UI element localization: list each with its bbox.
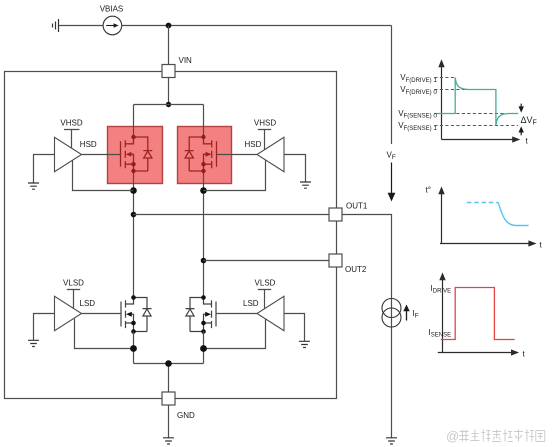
- wire (OUT1 to load line): [342, 215, 392, 438]
- wire: [59, 25, 104, 27]
- current source VBIAS: [103, 16, 122, 35]
- wire (phase2 lower vertical): [203, 332, 205, 364]
- MOSFET Q3 (low side left): [121, 298, 152, 332]
- power rail VHSD left: [64, 130, 79, 149]
- node junction source bus left: [130, 345, 137, 352]
- wire to OUT2: [204, 260, 330, 262]
- svg-text:VF(SENSE) 0: VF(SENSE) 0: [398, 109, 437, 120]
- node junction above VIN: [166, 23, 172, 29]
- graph2 x-axis: [440, 243, 529, 245]
- power rail VLSD right: [258, 290, 271, 309]
- node junction OUT2 tap: [201, 258, 207, 264]
- svg-text:HSD: HSD: [245, 140, 262, 149]
- wire (driver output to gate): [216, 313, 257, 315]
- graph1 x-axis: [442, 139, 513, 141]
- wire (phase1 lower vertical): [133, 332, 135, 364]
- ground: [28, 340, 39, 346]
- svg-text:t: t: [540, 241, 543, 250]
- graph3 x-axis: [438, 352, 511, 354]
- graph1 y-axis: [441, 66, 443, 140]
- wire: [122, 25, 392, 27]
- svg-text:VF(DRIVE) 0: VF(DRIVE) 0: [400, 85, 437, 96]
- svg-text:VF(DRIVE) 1: VF(DRIVE) 1: [400, 73, 437, 84]
- wire: [168, 405, 170, 438]
- svg-text:t°: t°: [426, 186, 431, 195]
- wire (driver LSD right return): [204, 319, 266, 349]
- wire (top rail to VF line): [391, 26, 393, 145]
- wire: [133, 105, 135, 138]
- svg-text:GND: GND: [177, 411, 195, 420]
- wire to OUT1: [134, 214, 330, 216]
- svg-text:OUT2: OUT2: [345, 265, 367, 274]
- power rail VHSD right: [258, 130, 271, 150]
- wire (common source to GND): [134, 364, 204, 393]
- ground: [300, 182, 311, 188]
- svg-text:OUT1: OUT1: [346, 202, 368, 211]
- graph1 dashed levels: [434, 78, 518, 126]
- wire (driver LSD left return): [75, 319, 134, 349]
- wire: [203, 105, 205, 138]
- svg-text:IF: IF: [413, 309, 419, 320]
- graph3 y-axis: [442, 279, 444, 353]
- svg-text:LSD: LSD: [80, 299, 96, 308]
- IF arrow: [406, 311, 408, 321]
- power rail VLSD left: [67, 290, 80, 309]
- MOSFET Q1 internals (in block 1): [121, 137, 153, 171]
- wire (phase 2 vertical): [203, 171, 205, 298]
- port GND: [162, 392, 175, 405]
- node junction block1 source: [130, 187, 137, 194]
- node junction block2 source: [200, 187, 207, 194]
- wire (driver input): [34, 155, 55, 184]
- svg-text:VHSD: VHSD: [254, 119, 276, 128]
- wire (driver input): [284, 155, 306, 183]
- graph2 temperature curve: [498, 203, 528, 226]
- wire (driver HSD right return): [204, 160, 266, 190]
- high-side MOSFET block 1 (highlighted): [108, 127, 163, 184]
- svg-text:LSD: LSD: [243, 299, 259, 308]
- ground: [163, 438, 174, 444]
- current source IF: [382, 299, 401, 318]
- wire (driver output to gate): [217, 154, 257, 156]
- VF measurement arrow: [391, 163, 393, 194]
- wire (driver input): [34, 314, 55, 341]
- port OUT2: [329, 254, 342, 267]
- wire (driver output to gate): [82, 313, 122, 315]
- svg-text:VF(SENSE) 1: VF(SENSE) 1: [398, 121, 437, 132]
- wire: [168, 26, 170, 65]
- node junction VIN split: [166, 102, 171, 107]
- svg-text:VLSD: VLSD: [63, 278, 84, 287]
- MOSFET Q4 (low side right): [186, 298, 217, 332]
- port VIN: [162, 65, 175, 78]
- graph2 y-axis: [441, 193, 443, 244]
- ground: [28, 183, 39, 189]
- wire: [168, 78, 170, 105]
- wire (driver input): [284, 314, 305, 342]
- svg-text:IDRIVE: IDRIVE: [431, 284, 452, 295]
- driver LSD right: [257, 296, 284, 330]
- svg-text:VIN: VIN: [179, 56, 193, 65]
- node junction source bus right: [200, 345, 207, 352]
- ground: [299, 341, 310, 347]
- svg-text:VHSD: VHSD: [60, 119, 82, 128]
- wire (phase 1 vertical): [133, 171, 135, 298]
- svg-text:VBIAS: VBIAS: [100, 5, 124, 14]
- svg-text:HSD: HSD: [80, 140, 97, 149]
- graph1 VF curve: [435, 78, 518, 126]
- graph3 current waveform: [441, 288, 515, 340]
- ground (VBIAS input, rotated): [53, 19, 59, 32]
- svg-text:ISENSE: ISENSE: [429, 328, 452, 339]
- wire (driver output to gate): [82, 154, 121, 156]
- svg-text:@: @: [446, 429, 459, 444]
- driver HSD left: [55, 137, 82, 171]
- port OUT1: [329, 208, 342, 221]
- svg-text:VLSD: VLSD: [255, 278, 276, 287]
- ground: [386, 438, 397, 444]
- svg-text:VF: VF: [387, 151, 396, 162]
- node junction OUT1 tap: [131, 212, 137, 218]
- wire: [134, 104, 204, 106]
- svg-text:t: t: [526, 137, 529, 146]
- node junction GND: [165, 360, 172, 367]
- svg-text:t: t: [523, 350, 526, 359]
- high-side MOSFET block 2 (highlighted): [178, 127, 232, 184]
- svg-text:ΔVF: ΔVF: [521, 115, 537, 127]
- MOSFET Q2 internals (in block 2): [185, 137, 217, 171]
- delta VF arrows: [520, 104, 522, 107]
- graph2 dashed blue level: [467, 202, 498, 204]
- IC boundary box: [5, 72, 337, 399]
- driver HSD right: [257, 137, 284, 171]
- wire (driver HSD left return): [73, 160, 134, 190]
- driver LSD left: [55, 296, 82, 330]
